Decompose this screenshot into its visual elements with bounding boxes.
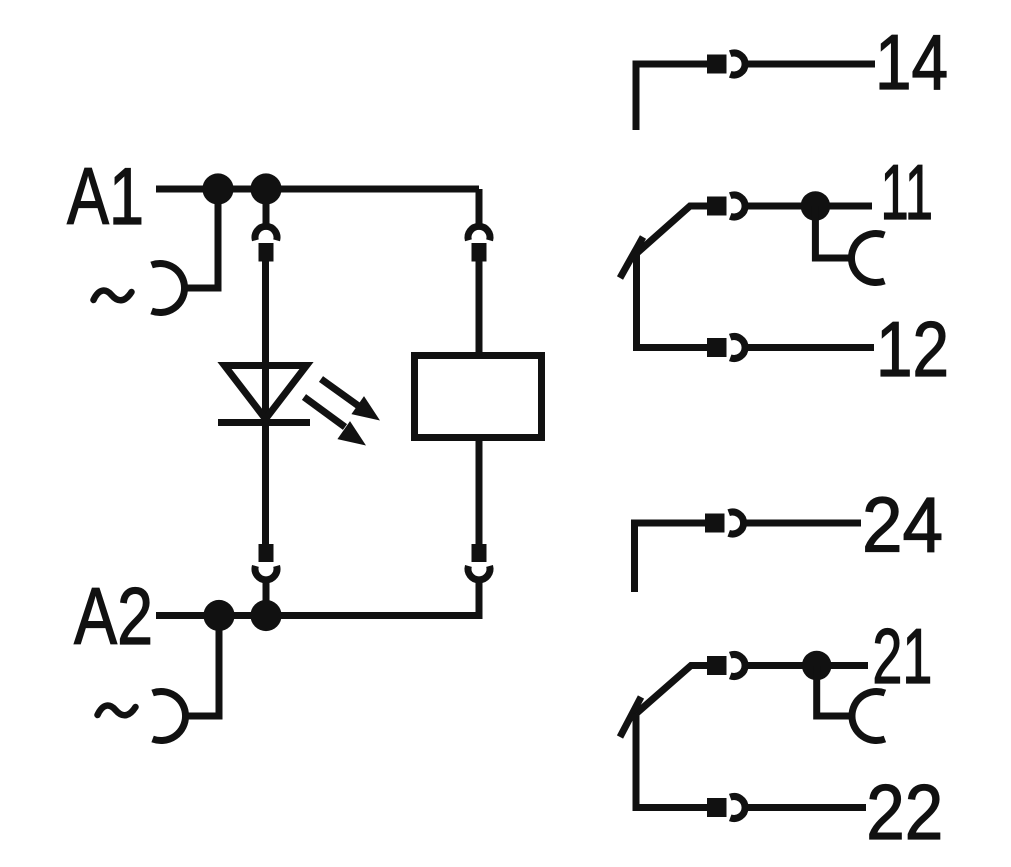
wire to coil (top) [476,189,483,227]
junction dot A2-b [250,600,281,631]
junction dot A1-a [202,173,233,204]
connector socket arc (14) [730,53,745,75]
changeover contact arm (bottom group) [636,666,709,714]
plug-in connector (coil branch, bottom) [472,544,487,562]
svg-text:12: 12 [876,305,949,393]
junction dot 21 [802,651,832,681]
connector pin square (21) [707,656,727,675]
LED cathode bar [218,419,310,426]
relay coil K1 [415,356,542,438]
wire to 21 [745,662,868,669]
wire to 14 [745,61,875,68]
connector socket arc (21) [730,655,745,677]
contact 14 wire [636,64,707,130]
wire A1 horizontal [156,186,479,193]
clamp terminal arc (A2) [153,691,186,740]
connector pin square (22) [707,798,727,817]
svg-text:22: 22 [866,768,943,856]
wire A2 down to clamp [187,616,219,717]
connector pin square (11) [707,197,727,216]
LED triangle [225,366,307,420]
wire A2 horizontal [156,612,479,619]
junction dot A1-b [250,173,281,204]
connector pin square (12) [707,338,727,357]
connector socket arc (24) [729,512,744,534]
connector pin square (24) [705,514,725,533]
connector socket arc (22) [730,797,745,819]
clamp terminal arc (21) [852,691,885,740]
LED arrow 1 [321,379,380,421]
junction dot A2-a [203,600,234,631]
connector socket arc [255,566,277,580]
wire to 11 [745,203,872,210]
wire LED cathode [262,420,269,544]
connector socket arc [255,226,277,240]
wire stub [263,189,270,227]
svg-text:A1: A1 [67,152,144,242]
wire coil top lead [476,261,483,352]
wire to 24 [744,520,861,527]
contact tick (top group) [620,237,643,278]
wire LED anode [262,261,269,420]
wire coil bottom lead [476,441,483,544]
wire stub [263,580,270,617]
connector socket arc (11) [730,195,745,217]
LED arrow 2 [304,397,366,446]
wire to 22 [745,804,866,811]
clamp wire (11) [815,206,850,258]
wire to 12 [745,344,874,351]
connector pin square [259,243,274,262]
AC symbol tilde (A1) [94,291,132,301]
contact 24 wire [635,523,707,592]
connector socket arc (12) [730,337,745,359]
clamp terminal arc (A1) [152,264,185,313]
svg-text:11: 11 [881,148,934,236]
contact tick (bottom group) [620,697,641,737]
svg-text:14: 14 [875,18,948,106]
wire A1 down to clamp [186,189,218,288]
clamp wire (21) [817,666,850,717]
connector pin square (14) [707,55,727,74]
connector pin square [259,544,274,562]
AC symbol tilde (A2) [98,706,136,716]
plug-in connector (coil branch, top) [468,226,490,240]
common pole wire (top group) [637,254,708,348]
junction dot 11 [801,191,831,221]
clamp terminal arc (11) [851,234,884,283]
changeover contact arm (top group) [637,206,709,254]
svg-text:24: 24 [862,481,943,569]
common pole wire (bottom group) [636,714,707,808]
svg-text:A2: A2 [74,572,153,662]
svg-text:21: 21 [872,612,932,700]
